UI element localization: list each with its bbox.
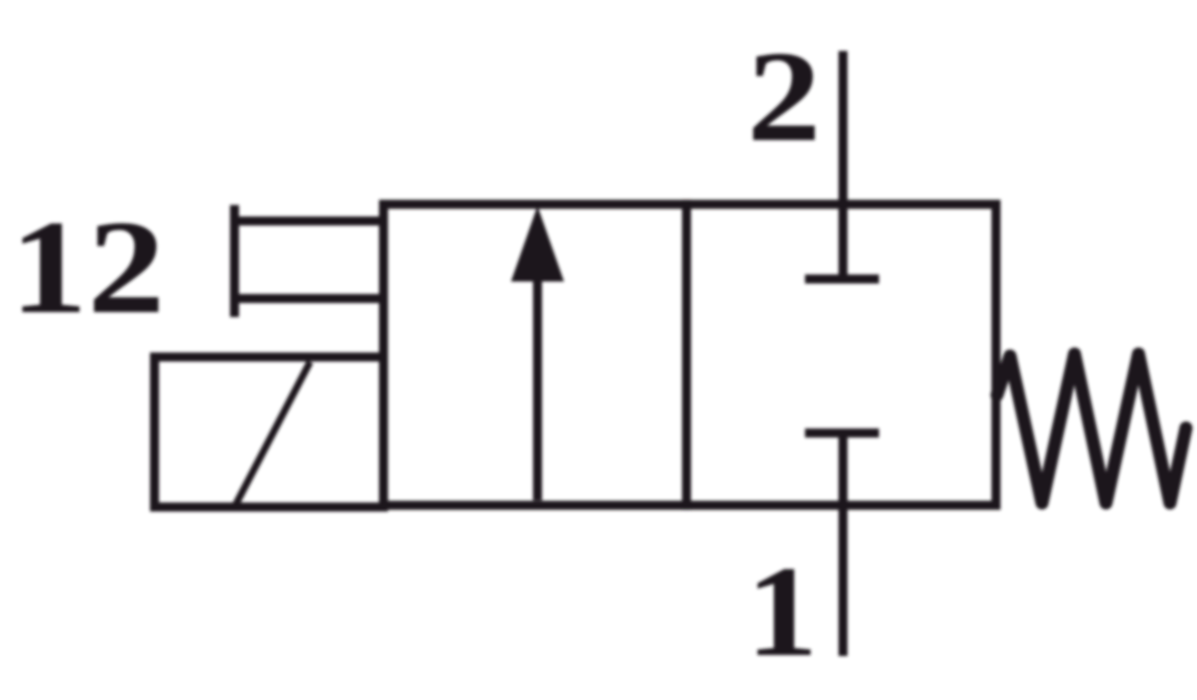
valve body: right square xyxy=(687,204,997,505)
svg-text:1: 1 xyxy=(746,540,818,684)
pilot actuator box xyxy=(155,357,384,507)
port 1 line xyxy=(839,431,848,656)
pilot port 12: upper line xyxy=(231,217,387,226)
pilot actuator diagonal xyxy=(236,362,310,504)
pilot port 12: lower line xyxy=(231,294,387,303)
svg-text:2: 2 xyxy=(747,25,821,169)
port 2 line xyxy=(839,51,848,281)
flow arrow in left square xyxy=(511,206,564,501)
svg-text:12: 12 xyxy=(10,193,165,341)
port 2 blocked seat xyxy=(805,275,879,284)
pilot port 12: end cap xyxy=(230,205,239,317)
return spring xyxy=(997,354,1186,503)
port 1 blocked seat xyxy=(805,429,879,438)
valve body: left square xyxy=(384,204,687,505)
